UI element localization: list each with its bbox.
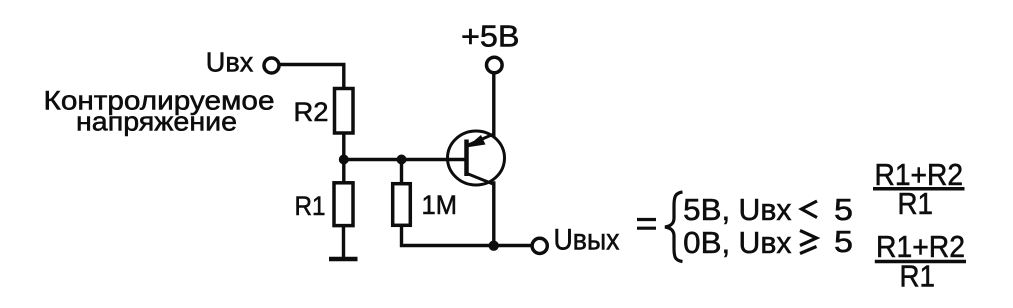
svg-text:R2: R2 (294, 97, 329, 127)
svg-text:Uвых: Uвых (554, 224, 620, 257)
svg-text:R1: R1 (295, 191, 326, 221)
svg-text:напряжение: напряжение (76, 107, 237, 137)
svg-text:Uвх: Uвх (739, 225, 792, 260)
svg-text:R1: R1 (898, 186, 934, 221)
svg-text:5: 5 (834, 192, 853, 227)
svg-text:5: 5 (834, 224, 853, 259)
svg-text:5В,: 5В, (683, 192, 730, 227)
svg-text:1M: 1M (422, 190, 458, 220)
svg-text:+5В: +5В (461, 19, 520, 54)
svg-text:R1: R1 (900, 259, 936, 294)
svg-text:Uвх: Uвх (206, 47, 254, 78)
svg-text:Uвх: Uвх (739, 192, 792, 227)
svg-text:0В,: 0В, (683, 225, 730, 260)
